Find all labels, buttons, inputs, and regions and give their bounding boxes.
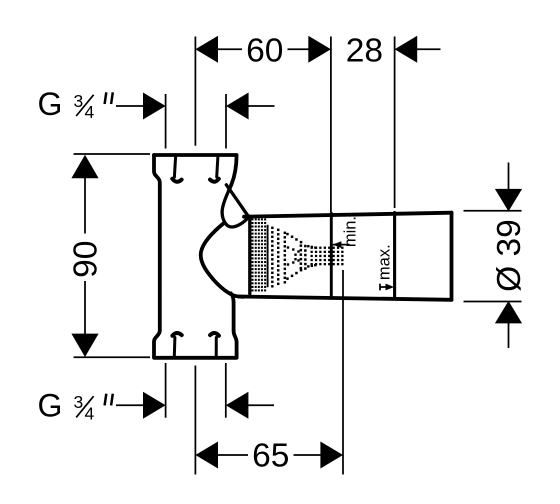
svg-text:3: 3	[74, 91, 84, 111]
inch marks bottom	[105, 394, 113, 406]
svg-text:60: 60	[246, 32, 283, 69]
fraction slash bottom	[76, 396, 93, 417]
fraction slash top	[76, 95, 93, 116]
90 dim line lower	[84, 281, 86, 336]
max leader	[380, 286, 392, 288]
G3/4 bottom ext line right	[225, 363, 227, 418]
65 leader left	[217, 454, 248, 456]
dotted col 2	[277, 229, 279, 231]
svg-text:Ø 39: Ø 39	[491, 219, 528, 292]
dotted col 4	[300, 244, 303, 247]
inch marks top	[105, 92, 113, 104]
top right screw hook	[210, 179, 219, 182]
dia39 leader top	[508, 163, 510, 191]
body waist curve	[201, 223, 243, 297]
valve seat teardrop loop	[222, 190, 249, 227]
arrow 65 left	[195, 442, 218, 469]
top right screw	[217, 157, 218, 178]
dia39 ext line top	[464, 210, 522, 212]
G3/4 top leader right	[249, 105, 275, 107]
dotted neck top	[307, 245, 309, 247]
extension line between 60 and 28	[330, 37, 332, 213]
dia39 leader bottom	[508, 323, 510, 349]
body top edge + upper right curve	[154, 155, 237, 190]
arrow 65 right	[320, 442, 343, 469]
G3/4 top leader	[116, 105, 144, 107]
svg-text:90: 90	[67, 241, 104, 278]
arrow 60 left	[195, 36, 218, 63]
extension line right of 28	[394, 37, 396, 209]
svg-text:G: G	[38, 388, 63, 424]
G3/4 top arrow left	[143, 93, 166, 120]
spindle end dot block	[311, 247, 313, 249]
65 leader right	[294, 454, 322, 456]
bottom left screw	[173, 338, 177, 357]
dotted funnel bottom	[286, 277, 289, 280]
dimension 28 leader right	[417, 48, 441, 50]
arrow dia39 up	[495, 301, 522, 324]
svg-text:min.: min.	[341, 216, 359, 247]
G3/4 bottom arrow right	[226, 392, 249, 419]
body left side + bottom edge + lower right edge	[154, 155, 237, 358]
min leader	[333, 244, 350, 246]
extension line left of 60	[194, 37, 196, 146]
arrow 60 right	[308, 36, 331, 63]
top left screw hook	[172, 179, 181, 182]
90 dim line upper	[84, 176, 86, 234]
dotted tip mid	[294, 254, 296, 256]
cone inner line max	[393, 213, 396, 299]
dotted col 1	[271, 227, 273, 229]
bottom right screw hook	[210, 333, 219, 336]
G3/4 top arrow right	[226, 93, 249, 120]
cone inner line min	[330, 213, 333, 297]
G3/4 top ext line right	[225, 94, 227, 149]
cone bottom edge	[239, 297, 452, 300]
G3/4 top ext line left	[165, 94, 167, 149]
top left screw	[174, 157, 175, 178]
dotted funnel top	[286, 233, 289, 236]
G3/4 bottom ext line left	[165, 363, 167, 418]
cone base diagonal	[226, 185, 249, 218]
G3/4 bottom leader	[116, 404, 144, 406]
G3/4 bottom leader right	[248, 404, 274, 406]
arrow 90 down	[71, 334, 98, 357]
dotted tip arc bottom	[287, 263, 289, 265]
svg-text:max.: max.	[376, 244, 394, 280]
dotted col 3	[284, 232, 286, 234]
cone left boundary	[248, 217, 251, 294]
65 ext line right	[342, 270, 344, 475]
bottom right screw	[215, 338, 218, 357]
max tick	[379, 284, 381, 291]
90 ext line top	[74, 153, 151, 155]
arrow 90 up	[71, 155, 98, 179]
max arrow	[386, 284, 395, 291]
dotted tip arc top	[287, 246, 289, 248]
cone right edge	[450, 213, 454, 300]
dia39 ext line bottom	[464, 301, 522, 303]
knurl dot band	[252, 218, 254, 220]
bottom left screw hook	[172, 333, 181, 336]
svg-text:65: 65	[252, 438, 289, 475]
arrow 28 right	[395, 36, 418, 63]
G3/4 bottom arrow left	[143, 392, 166, 419]
arrow dia39 down	[495, 189, 522, 212]
dotted col 5	[304, 245, 307, 248]
dimension 60 leader right	[288, 48, 310, 50]
svg-text:3: 3	[74, 392, 84, 412]
cone top edge	[244, 213, 452, 217]
dotted neck bottom	[307, 265, 309, 267]
svg-text:28: 28	[346, 32, 383, 69]
spindle boundary line	[267, 225, 269, 287]
dimension 60 leader left	[217, 48, 242, 50]
min arrow	[333, 241, 342, 248]
65 ext line left	[194, 366, 196, 475]
90 ext line bottom	[74, 356, 151, 358]
svg-text:G: G	[38, 86, 63, 122]
